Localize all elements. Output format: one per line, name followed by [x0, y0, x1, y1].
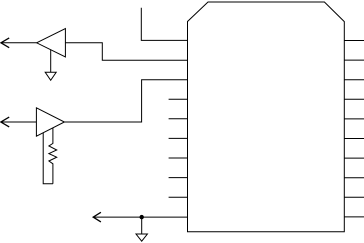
- wire bottom net to U1 pin row 10: [93, 216, 187, 218]
- node B off-page arrow: [1, 117, 9, 127]
- wire U3 output to U1 pin row 3: [64, 80, 187, 122]
- wire U2 to ground: [50, 50, 52, 73]
- pin 6 stub left: [169, 137, 188, 139]
- node C off-page arrow: [93, 212, 101, 222]
- pin 15 stub right: [344, 118, 364, 120]
- resistor R1: [49, 128, 57, 184]
- wire R1 return leg: [43, 133, 53, 184]
- op-amp U2 (left-pointing buffer): [37, 29, 66, 57]
- pin 19 stub right: [344, 196, 364, 198]
- pin 13 stub right: [344, 79, 364, 81]
- pin 4 stub left: [169, 98, 188, 100]
- pin 9 stub left: [169, 196, 188, 198]
- pin 14 stub right: [344, 98, 364, 100]
- pin 16 stub right: [344, 138, 364, 140]
- ground: [136, 234, 147, 241]
- pin 5 stub left: [169, 118, 188, 120]
- wire junction to ground: [141, 217, 143, 234]
- pin 7 stub left: [169, 157, 188, 159]
- ground: [45, 72, 56, 80]
- pin 18 stub right: [344, 177, 364, 179]
- wire U2 output to left edge: [1, 42, 37, 44]
- pin 20 stub right: [344, 216, 364, 218]
- pin 8 stub left: [169, 177, 188, 179]
- wire U3 input from left edge: [1, 121, 36, 123]
- node A off-page arrow: [1, 38, 9, 48]
- pin 17 stub right: [344, 157, 364, 159]
- pin 12 stub right: [344, 59, 364, 61]
- wire U2 input to U1 pin row 2: [65, 43, 187, 60]
- IC U1 body: [188, 2, 345, 232]
- wire top net to U1 pin row 1: [141, 8, 187, 41]
- pin 11 stub right: [344, 40, 364, 42]
- junction: [140, 215, 144, 219]
- op-amp U3 (right-pointing buffer): [36, 108, 64, 136]
